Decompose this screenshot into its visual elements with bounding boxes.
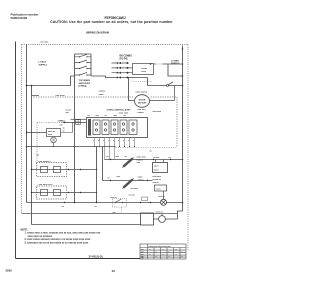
wire rail right to connector <box>91 76 112 78</box>
svg-text:3. xxxxxxxx xxx xx xx xxx xxxx: 3. xxxxxxxx xxx xx xx xxx xxxxx xx xx xx… <box>25 241 89 244</box>
control feed wire upper <box>71 118 87 120</box>
svg-text:xxxxx xx: xxxxx xx <box>153 179 162 181</box>
svg-text:xxxxx: xxxxx <box>137 159 144 161</box>
control column labels <box>88 115 127 117</box>
svg-text:(P1-P4): (P1-P4) <box>120 58 128 61</box>
wire main bottom run y202 <box>27 202 183 204</box>
drop to motor <box>174 86 176 101</box>
wire row4 under clock to switch <box>148 78 183 86</box>
neutral bottom run y224 <box>32 224 141 226</box>
svg-text:xxx: xxx <box>141 258 144 260</box>
svg-text:x: x <box>163 254 164 256</box>
svg-text:x: x <box>169 256 170 258</box>
fuse box on feed <box>76 120 81 125</box>
lock motor circle <box>135 95 150 108</box>
svg-text:xxxx xx: xxxx xx <box>48 131 56 133</box>
svg-text:10: 10 <box>112 269 116 273</box>
oven lamp <box>161 199 167 205</box>
svg-text:TOP BRNR: TOP BRNR <box>79 80 91 82</box>
dashed under clock <box>132 81 152 83</box>
wire neutral vertical <box>31 86 33 225</box>
svg-text:SUPPLY: SUPPLY <box>39 65 48 67</box>
svg-text:SWITCHES: SWITCHES <box>79 83 91 85</box>
switch on y85 <box>167 85 169 87</box>
wire y85 feed <box>27 85 71 87</box>
svg-text:xxxx: xxxx <box>138 177 144 179</box>
control dark bar <box>88 119 91 136</box>
svg-text:x: x <box>176 254 177 256</box>
latch switch box 1 <box>37 163 67 177</box>
svg-text:x: x <box>156 251 157 253</box>
svg-text:x: x <box>103 140 104 142</box>
junction dots left <box>26 85 76 148</box>
small box lower <box>155 185 167 191</box>
svg-text:2295: 2295 <box>6 268 13 272</box>
svg-text:x: x <box>182 251 183 253</box>
svg-text:xxxx xx: xxxx xx <box>156 212 164 214</box>
lock motor feed wire <box>27 132 47 134</box>
svg-text:x: x <box>176 249 177 251</box>
door switch box <box>141 213 154 225</box>
bake row wire <box>105 159 183 161</box>
wire bus y146 <box>27 146 116 148</box>
svg-text:xxx xxxx: xxx xxxx <box>56 95 66 97</box>
svg-text:xxx xxxx: xxx xxxx <box>153 111 162 113</box>
connector pin rows <box>112 63 148 78</box>
svg-text:x: x <box>93 140 94 142</box>
svg-text:xxx xxxx: xxx xxxx <box>41 41 49 43</box>
dots on y202 <box>64 202 151 203</box>
broil row wire <box>103 147 153 181</box>
latch switch box 2 <box>37 186 67 199</box>
svg-text:xxx xxx: xxx xxx <box>138 109 147 111</box>
svg-text:MOTOR: MOTOR <box>138 103 147 105</box>
svg-text:DOOR: DOOR <box>139 100 146 102</box>
svg-text:5995341092: 5995341092 <box>11 16 28 20</box>
svg-text:xxxxx: xxxxx <box>141 68 148 70</box>
svg-text:L1 BLK: L1 BLK <box>39 62 47 64</box>
svg-text:xxx xx: xxx xx <box>159 196 166 198</box>
svg-text:x: x <box>182 256 183 258</box>
right rail jog to lower circle <box>178 203 183 214</box>
wire color table <box>140 244 186 259</box>
control pin drops <box>95 138 135 147</box>
svg-text:xxx xx: xxx xx <box>153 182 160 184</box>
svg-text:x: x <box>108 140 109 142</box>
svg-text:xxxx xxx xxxx xxxx xxx: xxxx xxx xxxx xxxx xxx <box>149 246 172 248</box>
dashed console boundary left <box>21 45 23 214</box>
dashed console boundary top <box>22 44 189 46</box>
wire through latch 1 <box>32 169 97 171</box>
body boundary bottom y213 <box>22 213 178 215</box>
switch bank contacts <box>75 54 92 75</box>
svg-text:x: x <box>169 251 170 253</box>
control sub elements <box>93 120 137 135</box>
svg-text:x: x <box>156 256 157 258</box>
svg-text:xxx xxxx: xxx xxxx <box>153 176 162 178</box>
svg-text:x: x <box>98 140 99 142</box>
bake element <box>124 159 133 167</box>
thermostat box <box>153 163 168 173</box>
svg-text:xxxx xxx: xxxx xxx <box>137 157 147 159</box>
svg-text:x: x <box>150 254 151 256</box>
svg-text:x: x <box>123 140 124 142</box>
connector pins <box>119 62 128 79</box>
svg-text:CAUTION: Use the part number o: CAUTION: Use the part number on all orde… <box>50 20 173 24</box>
svg-text:xxxxx: xxxxx <box>138 179 145 181</box>
svg-text:WIRING DIAGRAM: WIRING DIAGRAM <box>86 31 109 35</box>
frame bottom edge <box>16 258 141 260</box>
broil element <box>124 180 133 188</box>
svg-text:xx xxxx: xx xxxx <box>131 188 139 190</box>
lock motor symbol <box>51 137 57 143</box>
svg-text:xxx/xx: xxx/xx <box>99 91 106 93</box>
wire branch down <box>168 64 183 76</box>
surface switch bank rails <box>75 54 92 76</box>
frame left edge <box>15 42 17 259</box>
svg-text:x: x <box>118 140 119 142</box>
svg-text:OVEN CONTROL ASSY: OVEN CONTROL ASSY <box>107 109 132 112</box>
right rail vertical <box>182 46 184 203</box>
clock box <box>133 64 154 75</box>
lock motor wires <box>128 78 175 101</box>
svg-text:xxxx xxxxx: xxxx xxxxx <box>136 92 148 94</box>
svg-text:x: x <box>133 140 134 142</box>
wire rail left continues down <box>74 76 76 203</box>
wire riser from y85 feed <box>71 76 75 86</box>
svg-text:xxxxx: xxxxx <box>138 112 145 114</box>
svg-text:x: x <box>113 140 114 142</box>
svg-text:xxxx: xxxx <box>99 94 105 96</box>
svg-text:xxx xxxx: xxx xxxx <box>58 121 67 123</box>
control box <box>87 118 148 138</box>
svg-text:xx xxx: xx xxx <box>154 157 161 159</box>
dashed lock enclosure <box>37 123 85 162</box>
svg-text:xxx xxxx xx x: xxx xxxx xx x <box>39 184 54 186</box>
dots on right rail <box>150 48 184 203</box>
control pin labels below <box>93 140 134 142</box>
svg-text:(4 REQ): (4 REQ) <box>79 85 87 88</box>
svg-text:SUPPLY: SUPPLY <box>171 63 180 65</box>
wire through latch 2 <box>32 192 97 194</box>
lock unit box <box>47 129 61 137</box>
vertical x96 <box>96 147 98 203</box>
dashed console boundary right <box>187 45 189 251</box>
oven light switch <box>113 199 127 208</box>
svg-text:x: x <box>150 249 151 251</box>
lock box out wire <box>61 123 73 133</box>
connector tick on neutral <box>32 95 40 97</box>
dashed body boundary mid <box>34 97 178 147</box>
svg-text:xx xxx: xx xxx <box>129 195 136 197</box>
svg-text:x: x <box>128 140 129 142</box>
control feed wire lower <box>63 122 87 124</box>
svg-text:3Y-6011(-O): 3Y-6011(-O) <box>89 254 103 258</box>
wire clock to right rail <box>154 63 183 65</box>
wire L1 vertical <box>26 45 28 203</box>
svg-text:x: x <box>163 249 164 251</box>
lower lamp <box>159 216 166 223</box>
connector arrowheads <box>117 62 120 79</box>
svg-text:BN CONNS: BN CONNS <box>120 56 133 58</box>
